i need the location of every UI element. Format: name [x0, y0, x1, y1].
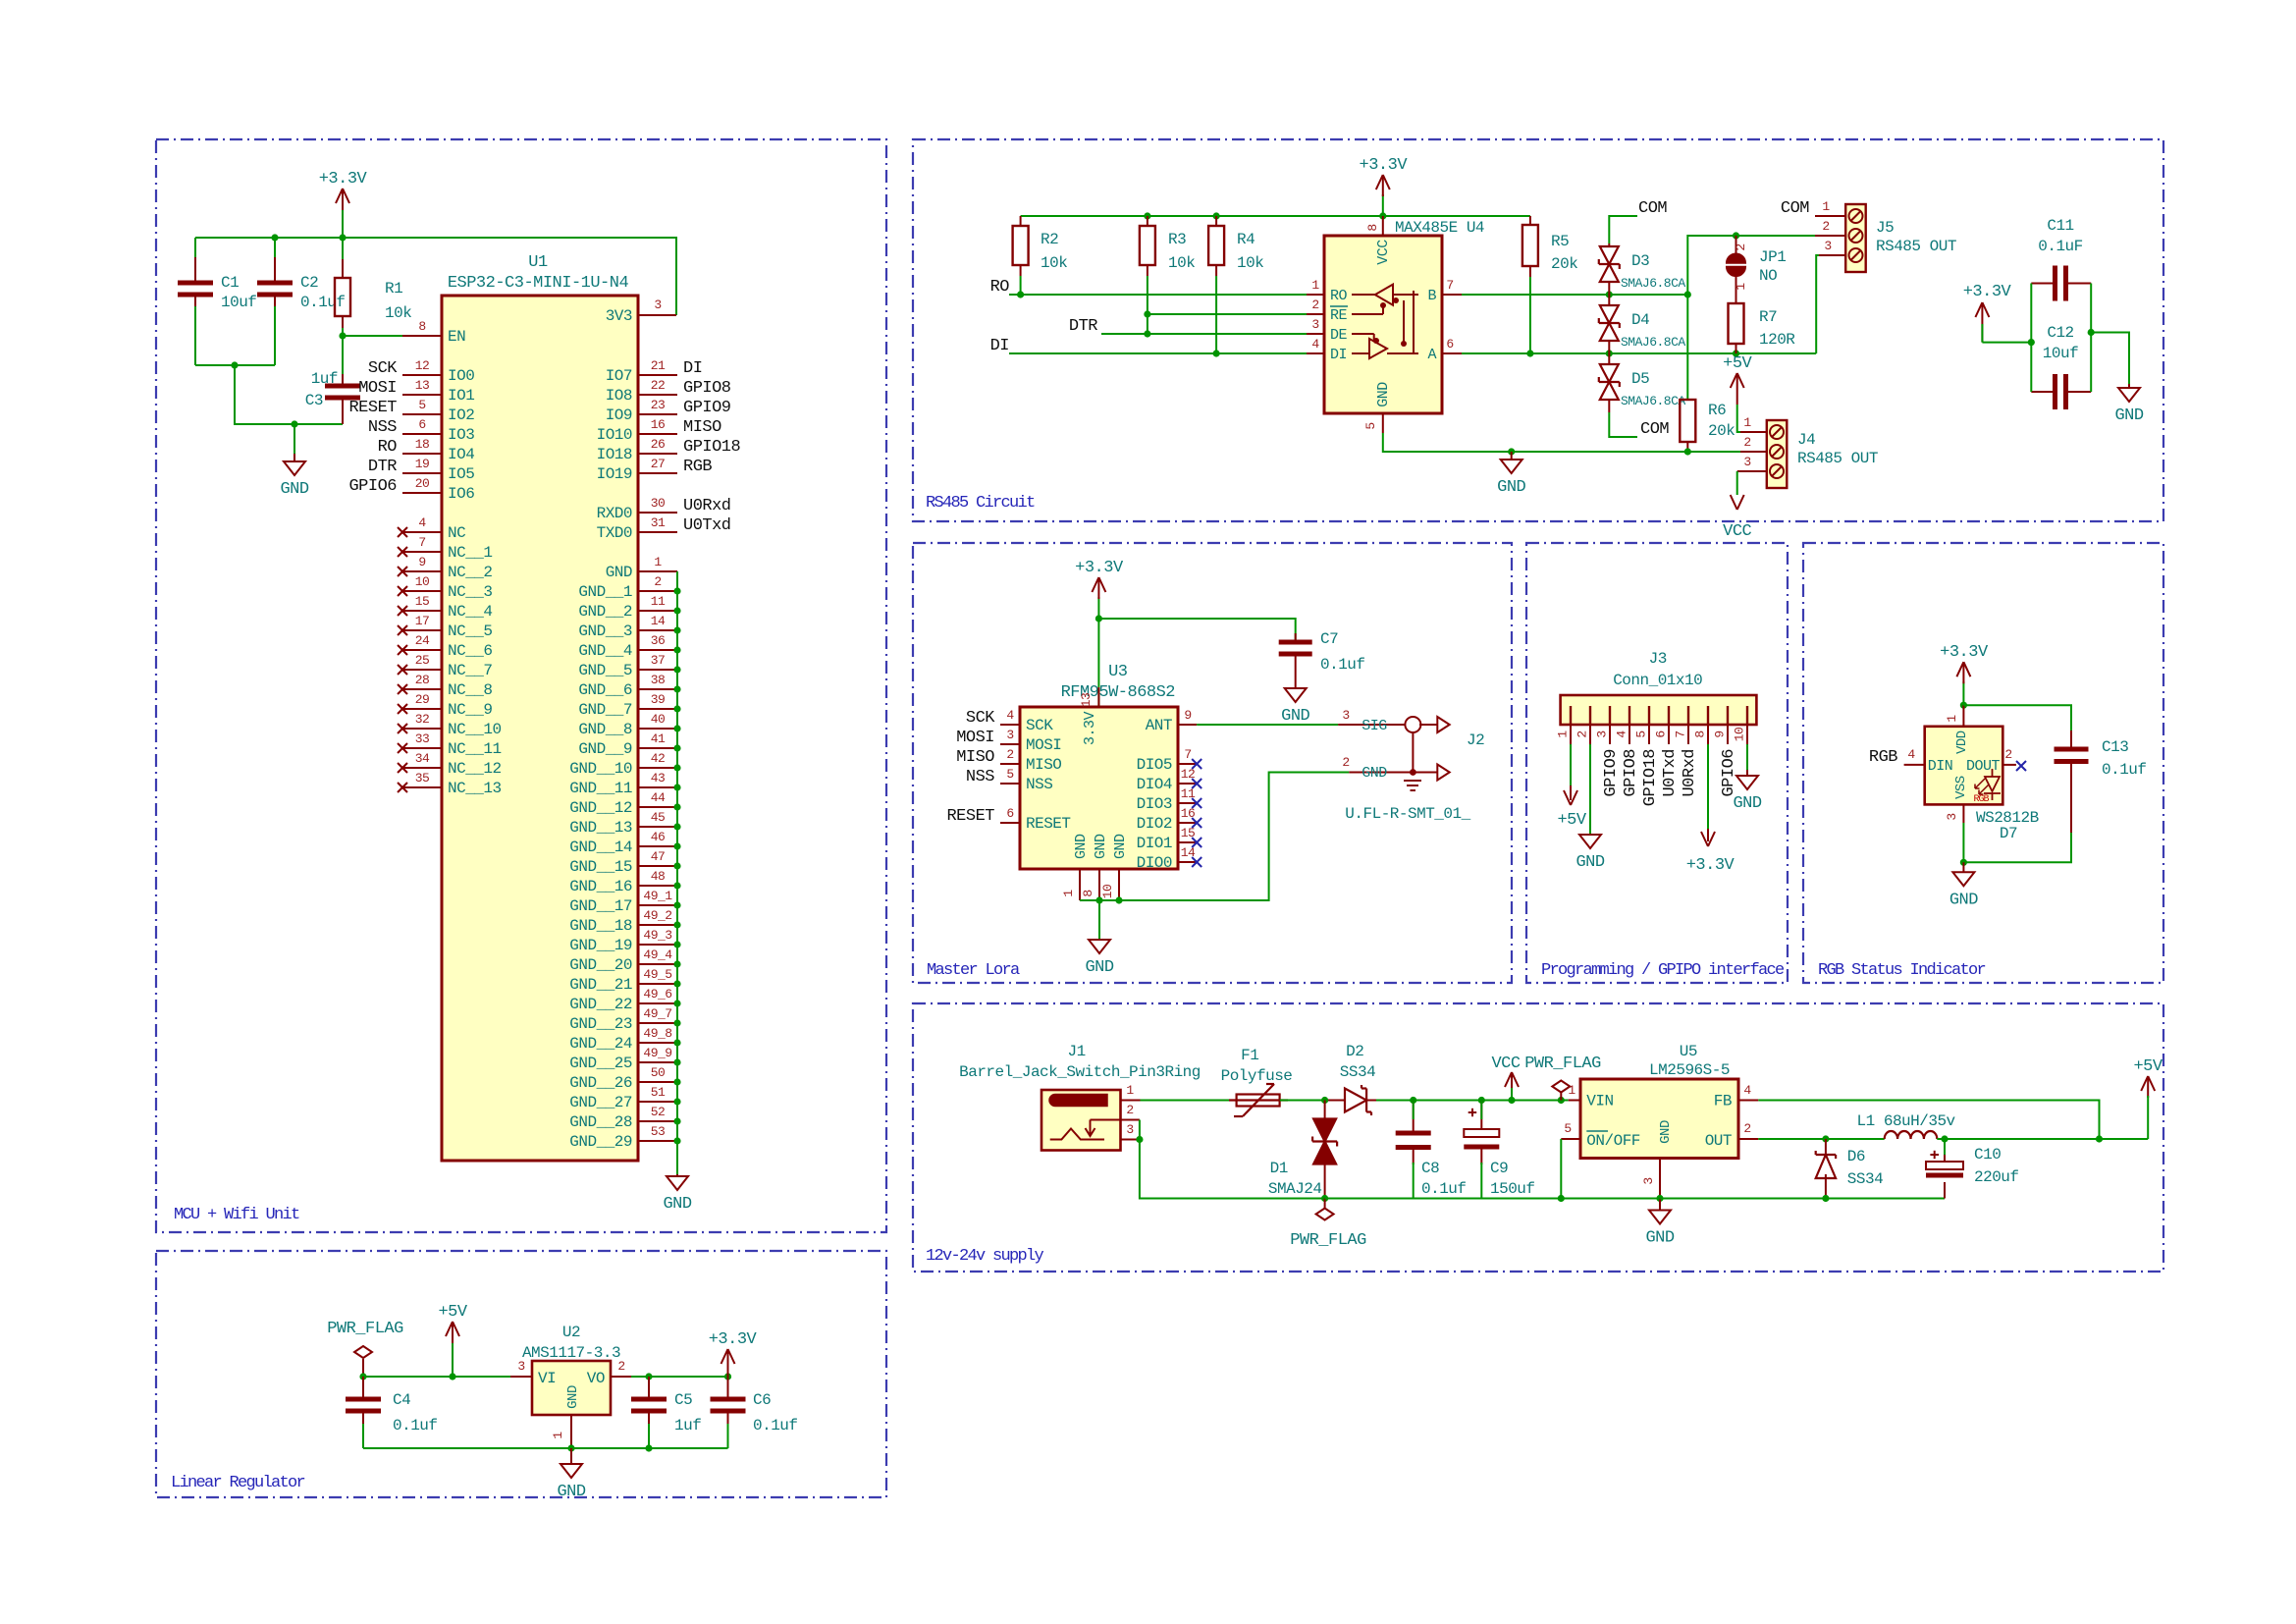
pin 15 NC__4 (no connect): [398, 594, 493, 621]
pin 18 IO4 with label RO: [378, 437, 475, 463]
junction GND pin 47: [673, 862, 680, 869]
svg-text:D3: D3: [1631, 252, 1649, 270]
svg-text:SS34: SS34: [1847, 1170, 1883, 1188]
svg-text:NSS: NSS: [368, 418, 397, 437]
svg-text:NC__7: NC__7: [448, 662, 493, 679]
svg-text:3: 3: [1311, 317, 1318, 332]
svg-text:GND: GND: [1112, 834, 1129, 859]
pin 23 IO9 with label GPIO9: [606, 398, 731, 424]
svg-text:49_4: 49_4: [643, 947, 672, 962]
pin 1 GND (U2): [551, 1415, 571, 1448]
svg-text:35: 35: [415, 771, 430, 785]
svg-text:GND: GND: [1949, 891, 1978, 909]
pin 5 NSS (U3) with label NSS: [966, 767, 1052, 793]
svg-text:GND__25: GND__25: [569, 1055, 632, 1072]
svg-text:GND: GND: [2114, 406, 2143, 425]
svg-text:GPIO18: GPIO18: [683, 438, 741, 457]
pin 52 GND__28: [569, 1105, 677, 1131]
power +5V (J4): [1723, 354, 1752, 405]
U4 receiver buffer: [1352, 285, 1393, 314]
wire ANT to J2 SIG: [1197, 724, 1338, 726]
svg-text:14: 14: [651, 614, 666, 628]
junction L1/C10: [1941, 1135, 1948, 1142]
svg-text:4: 4: [1615, 731, 1629, 738]
svg-text:C5: C5: [674, 1391, 692, 1409]
svg-text:7: 7: [1184, 747, 1191, 762]
svg-text:RS485 OUT: RS485 OUT: [1876, 238, 1956, 255]
section border: RGB Status Indicator: [1803, 543, 2163, 983]
svg-text:VI: VI: [538, 1370, 556, 1387]
svg-text:2: 2: [654, 574, 661, 589]
svg-text:21: 21: [651, 358, 666, 373]
svg-text:44: 44: [651, 790, 666, 805]
junction GND/gnd symbol: [1508, 448, 1515, 455]
svg-text:41: 41: [651, 731, 666, 746]
svg-text:49_6: 49_6: [643, 987, 671, 1001]
junction GND pin 53: [673, 1137, 680, 1144]
svg-text:5: 5: [1564, 1121, 1571, 1136]
junction GND pin 38: [673, 685, 680, 692]
junction D6 tap: [1822, 1135, 1829, 1142]
pin 9 (J3) label GPIO6: [1713, 725, 1739, 797]
svg-text:+5V: +5V: [1723, 354, 1752, 373]
svg-text:1: 1: [1734, 283, 1748, 291]
power flag PWR_FLAG (linear reg): [327, 1320, 403, 1377]
svg-text:GND__26: GND__26: [569, 1074, 632, 1092]
svg-text:40: 40: [651, 712, 666, 727]
pin 3 MOSI (U3) with label MOSI: [956, 728, 1061, 754]
svg-text:2: 2: [1311, 298, 1318, 312]
wire ON/OFF to bottom rail: [1560, 1139, 1562, 1199]
pin 49_3 GND__19: [569, 928, 677, 954]
svg-text:38: 38: [651, 673, 666, 687]
svg-text:9: 9: [1184, 708, 1191, 723]
pin 45 GND__13: [569, 810, 677, 837]
resistor R2 10k: [1013, 216, 1068, 295]
pin 28 NC__8 (no connect): [398, 673, 493, 699]
junction GND pin 49_2: [673, 921, 680, 928]
svg-text:GND__20: GND__20: [569, 956, 632, 974]
wire +3.3V to C13: [1963, 705, 2071, 731]
svg-text:DI: DI: [683, 359, 702, 378]
pin 1 RO (U4): [1307, 278, 1324, 295]
svg-text:+5V: +5V: [438, 1303, 467, 1322]
svg-text:3V3: 3V3: [606, 307, 632, 325]
pin 15 DIO1 (U3) no connect: [1137, 826, 1202, 852]
svg-text:DIN: DIN: [1928, 758, 1953, 775]
svg-text:NC__6: NC__6: [448, 642, 493, 660]
svg-text:150uf: 150uf: [1490, 1180, 1535, 1198]
junction A/R5: [1526, 350, 1533, 356]
svg-text:IO7: IO7: [606, 367, 632, 385]
svg-text:4: 4: [1311, 337, 1319, 352]
svg-text:VCC: VCC: [1375, 240, 1392, 265]
svg-text:DOUT: DOUT: [1966, 758, 2001, 775]
svg-text:GND: GND: [1497, 478, 1525, 497]
pin 49_8 GND__24: [569, 1026, 677, 1053]
resistor R4 10k: [1208, 216, 1263, 353]
svg-text:OUT: OUT: [1705, 1132, 1732, 1150]
svg-text:DIO3: DIO3: [1137, 795, 1172, 813]
pin 1 (J4): [1740, 415, 1767, 432]
svg-text:GND__8: GND__8: [578, 721, 632, 738]
svg-text:9: 9: [1713, 731, 1728, 737]
capacitor C12 10uf: [2031, 324, 2091, 409]
svg-text:+3.3V: +3.3V: [1963, 283, 2012, 301]
junction U3 gnd pin8: [1095, 896, 1102, 903]
connector J3 Conn_01x10: [1561, 650, 1757, 725]
svg-text:VIN: VIN: [1586, 1093, 1613, 1110]
svg-text:1: 1: [1822, 199, 1830, 214]
svg-text:3: 3: [1824, 239, 1831, 253]
svg-text:1: 1: [654, 555, 662, 569]
svg-text:29: 29: [415, 692, 430, 707]
svg-text:NC__2: NC__2: [448, 564, 493, 581]
wire +3.3V bus to 3V3 pin: [195, 238, 676, 315]
wire J1 pin2 to pin3: [1139, 1120, 1141, 1140]
wire VO to +3.3V: [631, 1376, 728, 1378]
svg-text:C1: C1: [221, 274, 239, 292]
svg-text:3: 3: [517, 1359, 524, 1374]
svg-text:GND: GND: [557, 1483, 585, 1501]
junction PWR_FLAG: [359, 1373, 366, 1380]
wire J1 pin1 to F1: [1141, 1100, 1237, 1102]
pin 35 NC__13 (no connect): [398, 771, 502, 797]
svg-text:GND__15: GND__15: [569, 858, 632, 876]
pin 17 NC__5 (no connect): [398, 614, 493, 640]
svg-text:GND: GND: [663, 1195, 691, 1214]
svg-text:C2: C2: [300, 274, 318, 292]
svg-text:Conn_01x10: Conn_01x10: [1613, 672, 1702, 689]
svg-text:3: 3: [1006, 728, 1013, 742]
polarized capacitor C9 150uf: [1464, 1101, 1534, 1199]
pin 2 GND__1: [578, 574, 677, 601]
svg-text:ON/OFF: ON/OFF: [1586, 1132, 1640, 1150]
capacitor C8 0.1uf: [1396, 1101, 1467, 1199]
pin 5 ON/OFF (U5): [1561, 1121, 1580, 1139]
svg-text:GND__17: GND__17: [569, 897, 632, 915]
pin 4 NC (no connect): [398, 515, 465, 542]
pin 13 IO1 with label MOSI: [358, 378, 474, 405]
pin 25 NC__7 (no connect): [398, 653, 493, 679]
junction GND pin 46: [673, 842, 680, 849]
svg-text:NC__11: NC__11: [448, 740, 502, 758]
polarized capacitor C10 220uf: [1926, 1139, 2019, 1199]
svg-text:IO2: IO2: [448, 406, 474, 424]
svg-text:GND: GND: [1093, 834, 1109, 859]
capacitor C5 1uf: [631, 1377, 701, 1435]
pin 2 (J3): [1575, 725, 1591, 744]
wire DI net: [1009, 352, 1307, 354]
pin 12 IO0 with label SCK: [368, 358, 474, 385]
svg-text:Polyfuse: Polyfuse: [1221, 1067, 1293, 1085]
wire GND bus right of U1: [676, 571, 678, 1174]
wire B riser to J5 pin2: [1687, 236, 1815, 295]
svg-text:NC__8: NC__8: [448, 681, 493, 699]
svg-text:GND__28: GND__28: [569, 1113, 632, 1131]
svg-text:U5: U5: [1680, 1043, 1697, 1060]
connector J2 U.FL: [1338, 708, 1484, 823]
pin 49_9 GND__25: [569, 1046, 677, 1072]
svg-text:2: 2: [1822, 219, 1829, 234]
pin 5 IO2 with label RESET: [348, 398, 474, 424]
junction C6/+3.3V: [724, 1373, 731, 1380]
svg-text:GND: GND: [280, 480, 308, 499]
wire C13 to VSS net: [1963, 833, 2071, 862]
pin 31 TXD0 with label U0Txd: [597, 515, 731, 542]
svg-text:NSS: NSS: [966, 768, 994, 786]
svg-text:2: 2: [2004, 747, 2011, 762]
svg-text:IO1: IO1: [448, 387, 474, 405]
svg-text:49_9: 49_9: [643, 1046, 671, 1060]
svg-text:PWR_FLAG: PWR_FLAG: [327, 1320, 403, 1338]
svg-text:34: 34: [415, 751, 430, 766]
junction R4/DI: [1213, 350, 1220, 356]
svg-text:RS485 Circuit: RS485 Circuit: [926, 494, 1035, 513]
svg-text:4: 4: [1743, 1083, 1751, 1098]
wire R3 to RE/DE rows: [1147, 295, 1148, 334]
svg-text:1: 1: [1126, 1083, 1134, 1098]
junction GND pin 51: [673, 1098, 680, 1105]
junction GND pin 49_7: [673, 1019, 680, 1026]
junction +3.3V (RGB): [1960, 702, 1967, 709]
pin 2 VO: [611, 1359, 631, 1377]
wire RO net: [1009, 294, 1307, 296]
pin 2 DOUT (D7) no connect: [2002, 747, 2026, 771]
pin 6 RESET (U3) with label RESET: [946, 806, 1070, 833]
wire A net: [1462, 352, 1816, 354]
svg-text:MISO: MISO: [683, 418, 721, 437]
svg-text:2: 2: [1743, 1121, 1750, 1136]
svg-text:RO: RO: [990, 278, 1010, 297]
pin 2 (J1): [1121, 1103, 1140, 1120]
svg-text:GND__9: GND__9: [578, 740, 632, 758]
svg-text:GND__16: GND__16: [569, 878, 632, 895]
svg-text:47: 47: [651, 849, 666, 864]
svg-text:GND__2: GND__2: [578, 603, 632, 621]
svg-text:J1: J1: [1067, 1043, 1085, 1060]
wire C8 to bottom rail: [1413, 1163, 1415, 1199]
svg-text:2: 2: [617, 1359, 624, 1374]
power +3.3V (C11/C12): [1963, 283, 2012, 343]
svg-text:RGB Status Indicator: RGB Status Indicator: [1818, 961, 1986, 980]
svg-text:+3.3V: +3.3V: [1075, 559, 1124, 577]
junction GND pin 48: [673, 882, 680, 889]
svg-text:5: 5: [418, 398, 425, 412]
svg-text:RESET: RESET: [1026, 815, 1071, 833]
ground symbol (linear reg): [557, 1448, 585, 1501]
svg-text:GND__12: GND__12: [569, 799, 632, 817]
svg-text:GPIO9: GPIO9: [1602, 749, 1621, 797]
svg-text:3: 3: [1342, 708, 1349, 723]
svg-text:SCK: SCK: [1026, 717, 1053, 734]
junction GND pin 39: [673, 705, 680, 712]
pin 49_5 GND__21: [569, 967, 677, 994]
svg-text:U0Rxd: U0Rxd: [683, 497, 731, 515]
junction GND pin 50: [673, 1078, 680, 1085]
junction GND pin 49_3: [673, 941, 680, 947]
svg-text:R2: R2: [1041, 231, 1058, 248]
junction ON/OFF rail: [1558, 1195, 1565, 1202]
svg-text:+3.3V: +3.3V: [1686, 856, 1735, 875]
pin 3 3V3: [606, 298, 676, 325]
ground symbol (U1): [663, 1174, 691, 1214]
transceiver U4 MAX485E: [1324, 219, 1484, 413]
svg-text:13: 13: [415, 378, 430, 393]
svg-text:8: 8: [1081, 890, 1095, 896]
svg-text:GND__6: GND__6: [578, 681, 632, 699]
svg-text:GND__5: GND__5: [578, 662, 632, 679]
svg-text:1: 1: [1945, 715, 1959, 723]
svg-text:37: 37: [651, 653, 666, 668]
svg-text:RGB: RGB: [1973, 794, 1989, 805]
wire F1 to D2: [1280, 1100, 1327, 1102]
wire GND rail (RS485): [1383, 433, 1740, 452]
TVS diode D3 SMAJ6.8CA: [1599, 244, 1686, 295]
svg-text:GND: GND: [1375, 382, 1392, 407]
svg-text:Linear Regulator: Linear Regulator: [171, 1474, 305, 1492]
svg-text:IO10: IO10: [597, 426, 632, 444]
pin 19 IO5 with label DTR: [368, 457, 474, 483]
junction +3.3V (Lora): [1095, 615, 1102, 622]
svg-text:SCK: SCK: [368, 359, 398, 378]
svg-text:10k: 10k: [1237, 254, 1263, 272]
svg-text:RGB: RGB: [1869, 748, 1897, 767]
svg-text:3: 3: [654, 298, 661, 312]
svg-text:+3.3V: +3.3V: [709, 1330, 758, 1349]
svg-text:7: 7: [1446, 278, 1453, 293]
junction R2/RO: [1017, 291, 1024, 298]
wire C6 to bottom rail: [727, 1424, 729, 1448]
wire D5 to COM (bottom): [1609, 412, 1637, 437]
svg-text:C8: C8: [1421, 1160, 1439, 1177]
svg-text:D5: D5: [1631, 370, 1649, 388]
pin 10 NC__3 (no connect): [398, 574, 493, 601]
wire COM to D3: [1609, 216, 1637, 244]
pin 1 (J5): [1815, 199, 1845, 216]
junction A/D4-D5: [1606, 350, 1613, 356]
svg-text:GPIO6: GPIO6: [348, 477, 397, 496]
junction bus/R4: [1213, 212, 1220, 219]
svg-text:2: 2: [1734, 244, 1748, 250]
svg-text:12v-24v supply: 12v-24v supply: [926, 1247, 1044, 1266]
capacitor C4 0.1uf: [346, 1377, 438, 1435]
junction GND rail C5: [645, 1444, 652, 1451]
svg-text:R1: R1: [385, 280, 402, 298]
capacitor C3 1uf: [305, 336, 360, 424]
pin 22 IO8 with label GPIO8: [606, 378, 731, 405]
junction R3/DTR: [1144, 330, 1150, 337]
svg-text:28: 28: [415, 673, 430, 687]
pin 33 NC__11 (no connect): [398, 731, 502, 758]
svg-text:9: 9: [418, 555, 425, 569]
svg-text:C11: C11: [2047, 217, 2073, 235]
wire OUT to L1: [1758, 1138, 1884, 1140]
svg-text:GND__29: GND__29: [569, 1133, 632, 1151]
svg-text:IO9: IO9: [606, 406, 632, 424]
svg-text:D6: D6: [1847, 1148, 1865, 1165]
svg-text:GND__7: GND__7: [578, 701, 632, 719]
power +5V (supply out): [2133, 1057, 2163, 1139]
svg-text:GND: GND: [1733, 794, 1761, 813]
svg-text:SIG: SIG: [1362, 718, 1387, 734]
svg-text:RGB: RGB: [683, 458, 712, 476]
svg-text:SMAJ6.8CA: SMAJ6.8CA: [1621, 276, 1685, 291]
svg-text:4: 4: [1006, 708, 1014, 723]
svg-text:NC__3: NC__3: [448, 583, 493, 601]
svg-text:50: 50: [651, 1065, 666, 1080]
svg-text:GND__27: GND__27: [569, 1094, 632, 1111]
svg-text:1: 1: [1743, 415, 1751, 430]
junction bottom rail: [231, 361, 238, 368]
svg-text:6: 6: [418, 417, 425, 432]
svg-text:J5: J5: [1876, 219, 1894, 237]
capacitor C11 0.1uF: [2031, 217, 2091, 301]
svg-text:R7: R7: [1759, 308, 1777, 326]
svg-text:J3: J3: [1649, 650, 1667, 668]
svg-text:GND: GND: [1073, 834, 1090, 859]
wire C1 lower lead: [194, 306, 196, 365]
regulator U5 LM2596S-5: [1580, 1043, 1738, 1159]
svg-text:33: 33: [415, 731, 430, 746]
power flag PWR_FLAG (VIN): [1524, 1055, 1601, 1101]
pin 3 (J5): [1819, 239, 1845, 255]
wire B riser to R6: [1686, 295, 1688, 400]
ground symbol (U3): [1085, 900, 1113, 977]
svg-text:IO8: IO8: [606, 387, 632, 405]
svg-text:MOSI: MOSI: [358, 379, 397, 398]
svg-text:A: A: [1427, 347, 1436, 363]
junction GND pin 49_8: [673, 1039, 680, 1046]
pin 42 GND__10: [569, 751, 677, 778]
resistor R3 10k: [1140, 216, 1195, 295]
svg-text:3: 3: [1595, 731, 1610, 737]
junction C5: [645, 1373, 652, 1380]
power VCC (J4 pin3): [1723, 471, 1751, 541]
svg-text:R4: R4: [1237, 231, 1255, 248]
svg-text:10uf: 10uf: [2043, 345, 2078, 362]
capacitor C2: [257, 238, 346, 316]
pin 14 GND__3: [578, 614, 677, 640]
svg-text:2: 2: [1006, 747, 1013, 762]
pin 6 A (U4): [1442, 337, 1462, 353]
pin 34 NC__12 (no connect): [398, 751, 502, 778]
pin 49_6 GND__22: [569, 987, 677, 1013]
power +3.3V (RS485): [1360, 156, 1409, 216]
svg-text:8: 8: [418, 319, 425, 334]
svg-text:D7: D7: [2000, 825, 2017, 842]
svg-text:16: 16: [651, 417, 666, 432]
svg-text:IO6: IO6: [448, 485, 474, 503]
wire bottom rail right: [1660, 1198, 1945, 1200]
TVS diode D4 SMAJ6.8CA: [1599, 295, 1686, 353]
svg-text:19: 19: [415, 457, 430, 471]
svg-text:24: 24: [415, 633, 430, 648]
pin 47 GND__15: [569, 849, 677, 876]
svg-text:C10: C10: [1974, 1146, 2001, 1164]
pin 14 DIO0 (U3) no connect: [1137, 845, 1202, 872]
pin 3 VI: [510, 1359, 532, 1377]
svg-text:VCC: VCC: [1491, 1055, 1520, 1073]
svg-text:RESET: RESET: [348, 399, 397, 417]
svg-text:2: 2: [1575, 731, 1590, 737]
svg-text:12: 12: [415, 358, 430, 373]
svg-text:DIO2: DIO2: [1137, 815, 1172, 833]
svg-text:0.1uf: 0.1uf: [2102, 761, 2147, 779]
svg-text:U2: U2: [562, 1324, 580, 1341]
svg-text:25: 25: [415, 653, 430, 668]
svg-text:3: 3: [1945, 813, 1959, 820]
